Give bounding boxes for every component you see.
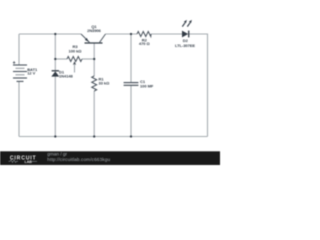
wire R3 row left lead	[55, 58, 67, 60]
svg-text:LAB: LAB	[25, 160, 33, 164]
svg-text:100 kΩ: 100 kΩ	[69, 48, 83, 53]
watermark bar	[0, 151, 220, 165]
CircuitLab logo	[9, 156, 38, 164]
resistor R1	[92, 76, 97, 91]
node dot top of D1 column	[54, 33, 56, 35]
node dot top of C1 column	[130, 33, 132, 35]
diode D1	[51, 71, 59, 77]
svg-text:1N4148: 1N4148	[59, 73, 74, 78]
svg-text:http://circuitlab.com/c663kgu: http://circuitlab.com/c663kgu	[47, 157, 110, 162]
svg-text:2N3906: 2N3906	[87, 28, 102, 33]
resistor R2	[137, 32, 151, 37]
wire LED to top-right corner and right column	[189, 34, 208, 137]
node dot bottom of D1 column	[54, 135, 56, 137]
node dot R3 right junction	[93, 58, 95, 60]
svg-text:470 Ω: 470 Ω	[139, 41, 151, 46]
wire D1 column	[54, 34, 56, 137]
node dot bottom of R1 column	[93, 135, 95, 137]
wire left column bottom (battery to bottom rail)	[18, 82, 20, 137]
svg-text:12 V: 12 V	[27, 71, 35, 76]
wire left column top (corner to battery)	[18, 34, 20, 65]
transistor Q1	[81, 34, 106, 43]
wire Q1 base column down through R1 to bottom rail	[93, 44, 95, 137]
wire C1 column	[130, 34, 132, 137]
wire bottom rail	[19, 136, 208, 138]
svg-text:100 MF: 100 MF	[140, 84, 154, 89]
node dot bottom of C1 column	[130, 135, 132, 137]
wire top rail left (battery + to Q1 emitter)	[19, 33, 81, 35]
wire R3 row right lead	[82, 58, 94, 60]
svg-text:LTL-307EE: LTL-307EE	[175, 43, 195, 48]
credit text	[47, 152, 110, 162]
wire R2 to LED	[151, 33, 182, 35]
capacitor C1	[124, 83, 139, 86]
potentiometer R3	[67, 57, 82, 73]
battery BAT1	[13, 61, 27, 81]
svg-text:33 kΩ: 33 kΩ	[99, 80, 111, 85]
node dot R3 left junction	[54, 58, 56, 60]
wire top rail right (Q1 collector to R2)	[106, 33, 138, 35]
LED D2	[182, 20, 192, 38]
